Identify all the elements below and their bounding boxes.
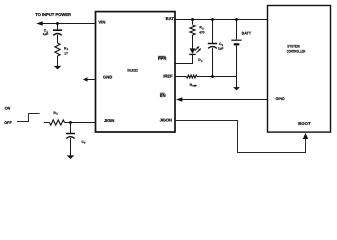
- svg-text:JIGON: JIGON: [160, 118, 172, 123]
- wire C2 to IREF net: [212, 48, 214, 77]
- ground arrow below R1: [54, 66, 62, 70]
- ground arrow at GND pin: [83, 77, 88, 81]
- resistor RREF: [187, 75, 197, 78]
- svg-text:PPR: PPR: [158, 56, 167, 61]
- node BAT junction C2: [211, 18, 214, 21]
- wire IREF pin: [175, 76, 187, 78]
- wire D1 to PPR corner: [176, 54, 193, 63]
- wire VIN net: [42, 23, 96, 25]
- arrow into EN pin: [176, 97, 182, 102]
- svg-text:470: 470: [199, 31, 205, 35]
- wire C1 to R1: [57, 35, 59, 43]
- wire C3 to ground: [70, 138, 72, 156]
- wire EN to GPIO: [182, 99, 268, 101]
- svg-text:BOOT: BOOT: [298, 121, 311, 126]
- wire to C1: [57, 24, 59, 31]
- wire BAT to C2: [212, 20, 214, 44]
- arrow into BOOT pin: [303, 133, 308, 139]
- LED D1: [190, 48, 196, 53]
- node VIN junction: [56, 22, 59, 25]
- wire R2 to D1: [192, 35, 194, 49]
- svg-text:GPIO: GPIO: [276, 97, 285, 101]
- arrow to input power: [36, 21, 42, 26]
- resistor R3: [50, 120, 65, 125]
- svg-text:GND: GND: [103, 75, 112, 80]
- wire R3 to JIGIN pin: [65, 122, 96, 124]
- svg-text:1μF: 1μF: [218, 47, 224, 51]
- resistor R1: [55, 43, 60, 56]
- wire BAT rail: [175, 19, 268, 21]
- ground arrow below C3: [67, 155, 75, 159]
- ground arrow below battery: [233, 87, 240, 90]
- svg-text:SYSTEM: SYSTEM: [287, 44, 299, 48]
- svg-text:TO INPUT POWER: TO INPUT POWER: [35, 12, 71, 17]
- system controller U2 block: [268, 6, 331, 133]
- node JIGIN junction: [69, 121, 72, 124]
- svg-text:17: 17: [64, 51, 68, 55]
- capacitor C2: [208, 43, 217, 45]
- svg-text:OFF: OFF: [4, 121, 12, 125]
- svg-text:REF: REF: [192, 85, 197, 88]
- wire JIGON to BOOT: [175, 121, 306, 153]
- capacitor C1: [53, 29, 62, 31]
- node BAT junction BATT: [235, 18, 238, 21]
- op-amp U1 ISL9222 block outline: [96, 12, 176, 132]
- wire BAT to battery: [236, 20, 238, 40]
- node BAT junction R2: [191, 18, 194, 21]
- wire BAT to R2: [192, 20, 194, 25]
- svg-text:JIGIN: JIGIN: [104, 118, 114, 123]
- capacitor C3: [66, 133, 75, 135]
- wire RREF to ground corner: [197, 77, 237, 88]
- wire R1 to ground: [57, 56, 59, 67]
- svg-text:BAT: BAT: [166, 16, 175, 21]
- wire JIGIN input: [44, 122, 50, 124]
- resistor R2: [190, 25, 195, 35]
- svg-text:ISL9222: ISL9222: [127, 69, 137, 73]
- svg-text:ON: ON: [5, 106, 11, 110]
- node IREF junction C2: [211, 75, 214, 78]
- svg-text:1μF: 1μF: [43, 32, 49, 36]
- svg-text:BATT: BATT: [242, 31, 252, 35]
- step waveform annotation: [17, 114, 40, 122]
- wire GND pin: [87, 79, 96, 81]
- svg-text:VIN: VIN: [98, 19, 105, 24]
- svg-text:CONTROLLER: CONTROLLER: [287, 49, 306, 53]
- svg-text:EN: EN: [160, 93, 166, 98]
- wire to C3: [70, 123, 72, 134]
- svg-text:IREF: IREF: [163, 73, 173, 78]
- battery BATT: [231, 39, 241, 41]
- wire battery to ground net: [236, 45, 238, 76]
